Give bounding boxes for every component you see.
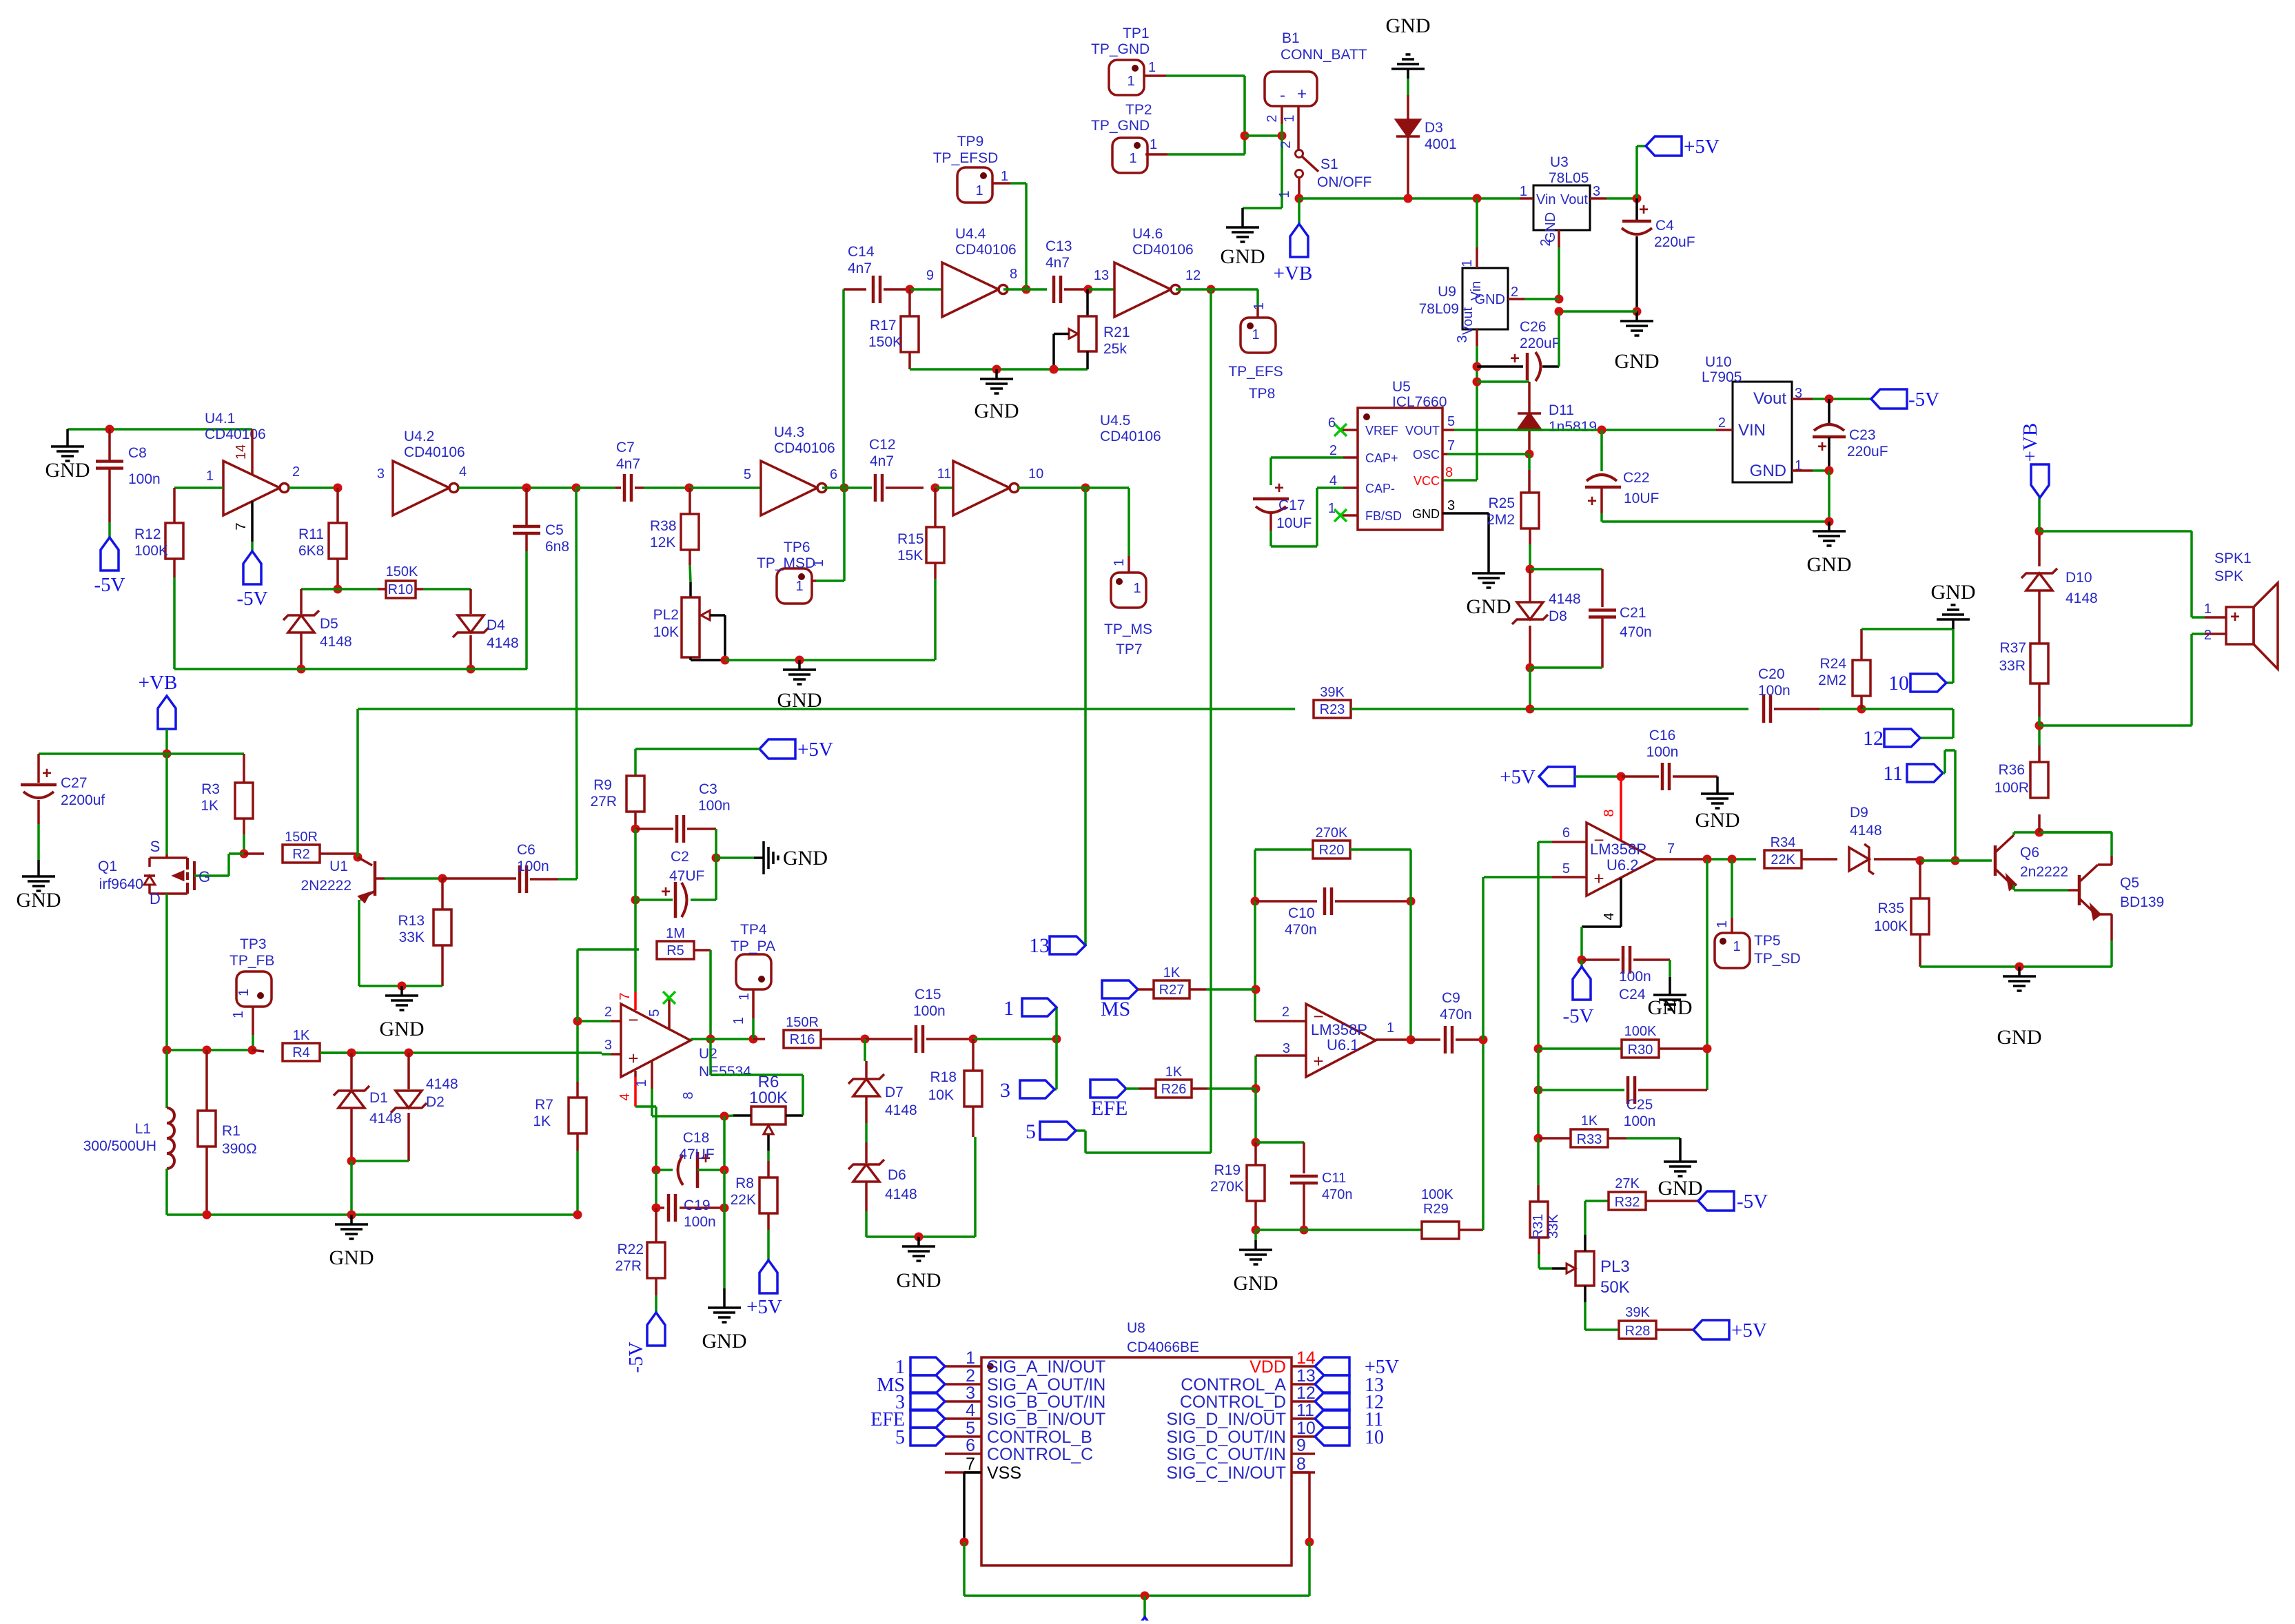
svg-text:R19: R19 [1214, 1162, 1241, 1178]
svg-text:VSS: VSS [987, 1463, 1021, 1483]
wire R17 bottom to GND/R21 [910, 368, 1054, 371]
wire +VB rail left [39, 752, 167, 755]
svg-text:TP4: TP4 [740, 922, 767, 938]
svg-text:220uF: 220uF [1520, 336, 1561, 351]
wire R37 row to SPK pin2 [2039, 724, 2192, 727]
svg-text:U4.6: U4.6 [1132, 226, 1163, 242]
svg-text:C7: C7 [616, 440, 635, 455]
svg-text:SIG_C_IN/OUT: SIG_C_IN/OUT [1166, 1463, 1286, 1483]
wire gnd rail bottom left [167, 1213, 351, 1216]
svg-text:2: 2 [1282, 1005, 1289, 1020]
wire R38 to PL2 [688, 550, 691, 565]
svg-text:Vout: Vout [1460, 307, 1476, 335]
svg-text:+: + [1510, 349, 1520, 368]
wire U9 Vin [1476, 198, 1478, 247]
svg-text:1: 1 [1715, 921, 1730, 928]
junction C11 bottom [1300, 1226, 1309, 1235]
svg-text:CONTROL_A: CONTROL_A [1181, 1375, 1286, 1395]
svg-text:3: 3 [377, 466, 385, 482]
svg-text:U4.5: U4.5 [1100, 413, 1130, 429]
svg-text:7: 7 [234, 522, 249, 530]
svg-text:+VB: +VB [2019, 423, 2041, 462]
svg-text:1: 1 [1387, 1020, 1394, 1036]
inverter U4.4 CD40106 [942, 263, 999, 317]
junction C4 bottom [1633, 307, 1642, 316]
ic U8 CD4066BE [981, 1357, 1292, 1565]
wire C14 to U4.4 [910, 288, 942, 291]
capacitor C11 470n [1290, 1175, 1318, 1178]
svg-text:GND: GND [1221, 245, 1265, 268]
ground GND (C27) [37, 860, 40, 867]
svg-text:22K: 22K [1771, 852, 1795, 867]
wire U1 collector to C6 [385, 877, 442, 880]
resistor R34 22K [1764, 850, 1802, 868]
junction R24 bottom [1857, 705, 1866, 714]
power -5V (below U4.1) [243, 551, 261, 584]
potentiometer R21 25k [1086, 289, 1089, 316]
svg-text:-5V: -5V [1737, 1191, 1768, 1213]
junction R11 bottom [334, 585, 343, 594]
resistor R35 100K [1919, 861, 1921, 898]
svg-text:4148: 4148 [885, 1102, 917, 1118]
svg-text:1: 1 [1129, 151, 1136, 166]
wire pin7 drop [634, 900, 637, 992]
junction C22 top [1598, 426, 1606, 435]
svg-text:4148: 4148 [1850, 823, 1882, 839]
svg-text:33K: 33K [399, 929, 425, 945]
ground GND (D6/D7) [917, 1237, 920, 1246]
resistor R25 2M2 [1528, 454, 1531, 470]
resistor R4 1K [252, 1050, 264, 1051]
svg-text:C25: C25 [1626, 1097, 1653, 1113]
capacitor C20 100n [1762, 695, 1766, 723]
junction C10 left [1251, 897, 1260, 906]
svg-text:U3: U3 [1550, 154, 1569, 170]
zener D7 4148 [864, 1039, 866, 1061]
resistor R33 1K [1539, 1137, 1571, 1140]
svg-text:4: 4 [966, 1401, 975, 1420]
capacitor C17 10UF [1271, 456, 1343, 459]
svg-text:PL3: PL3 [1600, 1257, 1630, 1276]
hier label 3 [1055, 1039, 1058, 1089]
resistor R30 100K [1538, 1047, 1622, 1050]
svg-text:+: + [1274, 479, 1284, 497]
wire C7 to U4.3 [689, 486, 761, 489]
svg-text:6: 6 [966, 1436, 975, 1455]
wire D11 top [1477, 380, 1529, 383]
power +5V (R28) [1693, 1320, 1729, 1339]
power -5V (U8) [1143, 1596, 1146, 1617]
svg-text:39K: 39K [1625, 1305, 1650, 1320]
svg-text:10: 10 [1296, 1419, 1316, 1438]
junction U10 gnd [1825, 466, 1834, 475]
svg-text:4: 4 [459, 464, 467, 480]
svg-text:470n: 470n [1322, 1187, 1353, 1202]
svg-text:78L05: 78L05 [1549, 170, 1589, 186]
wire C26 to gnd rail [1558, 313, 1560, 367]
svg-text:C13: C13 [1045, 238, 1072, 254]
svg-text:-: - [1280, 86, 1285, 105]
wire SPK pin2 [2190, 634, 2193, 726]
svg-text:5: 5 [1447, 414, 1455, 429]
junction C26 left [1473, 362, 1482, 371]
wire U4.5 out to TP7 [1018, 486, 1129, 489]
svg-text:27R: 27R [590, 794, 617, 810]
junction R19 top [1252, 1138, 1261, 1147]
svg-text:2200uf: 2200uf [61, 792, 105, 808]
svg-text:D5: D5 [320, 616, 338, 632]
junction D4 bottom [467, 665, 476, 674]
svg-text:R27: R27 [1159, 983, 1185, 998]
svg-text:5: 5 [1562, 861, 1570, 876]
svg-text:1: 1 [1001, 169, 1008, 184]
svg-text:TP9: TP9 [957, 134, 984, 150]
junction C2 left [631, 896, 640, 905]
zener D10 4148 [2021, 568, 2057, 578]
potentiometer PL3 50K [1552, 1267, 1567, 1270]
resistor R28 39K [1619, 1321, 1656, 1339]
svg-text:EFE: EFE [1091, 1097, 1128, 1120]
resistor R6 100K pot [751, 1107, 786, 1124]
svg-text:TP_MSD: TP_MSD [757, 555, 815, 571]
svg-text:CD40106: CD40106 [205, 426, 266, 442]
svg-text:+: + [2230, 608, 2240, 626]
svg-text:-5V: -5V [94, 574, 125, 596]
svg-text:GND: GND [1615, 350, 1660, 373]
junction C25 left [1534, 1086, 1543, 1095]
svg-text:1: 1 [1127, 74, 1134, 89]
junction R2/U1 base [354, 853, 363, 862]
junction TP nets [1241, 132, 1249, 141]
svg-text:22K: 22K [731, 1192, 756, 1208]
diode D11 1n5819 [1528, 408, 1531, 413]
ground GND (bottom left) [350, 1215, 353, 1224]
svg-text:R10: R10 [388, 582, 414, 597]
svg-text:C22: C22 [1623, 470, 1650, 486]
hier label 13 (U8) [1315, 1375, 1349, 1393]
svg-text:1: 1 [1277, 190, 1292, 198]
capacitor C16 100n [1621, 775, 1659, 778]
svg-text:Q1: Q1 [98, 859, 117, 874]
wire R4 to U2 pin3 [320, 1051, 602, 1054]
svg-text:GND: GND [1997, 1026, 2042, 1049]
svg-text:4148: 4148 [2065, 590, 2098, 606]
hier label MS [1102, 980, 1138, 998]
svg-text:15K: 15K [897, 548, 923, 564]
pin stubs U8 right [1292, 1365, 1315, 1368]
resistor R22 27R [655, 1208, 657, 1242]
junction GND tap [795, 656, 804, 665]
svg-text:R28: R28 [1625, 1324, 1651, 1339]
junction U3 gnd b [1555, 307, 1564, 316]
svg-text:C21: C21 [1620, 605, 1646, 621]
svg-text:390Ω: 390Ω [222, 1141, 257, 1157]
svg-text:33R: 33R [1999, 658, 2026, 674]
svg-text:D6: D6 [888, 1167, 906, 1183]
wire U9 Vout down [1476, 329, 1478, 346]
junction TP3 [248, 1046, 257, 1055]
wire U5 gnd [1487, 513, 1490, 564]
junction U4.6 output [1207, 285, 1216, 294]
svg-text:CONTROL_C: CONTROL_C [987, 1445, 1093, 1464]
speaker SPK1 SPK [2205, 616, 2226, 619]
svg-text:SIG_B_OUT/IN: SIG_B_OUT/IN [987, 1392, 1105, 1412]
resistor R15 15K [934, 488, 937, 527]
ground GND (below U10) [1828, 522, 1830, 531]
inverter U4.2 CD40106 [393, 461, 449, 515]
svg-text:GND: GND [702, 1330, 747, 1353]
junction pin1/C18 [720, 1112, 729, 1121]
svg-text:33K: 33K [1546, 1214, 1561, 1239]
hier label 1 [1055, 1007, 1058, 1039]
power -5V (U6.2) [1580, 960, 1583, 967]
junction Q1 drain row [163, 1046, 172, 1055]
resistor R38 12K [688, 488, 691, 514]
zener D5 4148 [300, 589, 303, 614]
zener D2 4148 [407, 1053, 410, 1089]
svg-text:12K: 12K [650, 535, 675, 551]
svg-text:TP_EFS: TP_EFS [1228, 364, 1283, 380]
resistor R19 270K [1254, 1142, 1257, 1165]
svg-text:U4.4: U4.4 [955, 226, 986, 242]
hier label 12 [1884, 729, 1920, 747]
inverter U4.1 CD40106 [223, 461, 280, 515]
svg-text:R3: R3 [201, 781, 220, 797]
svg-text:13: 13 [1296, 1366, 1316, 1386]
ground GND (below PL2) [798, 660, 801, 670]
svg-text:10K: 10K [653, 624, 679, 640]
svg-text:100R: 100R [1995, 780, 2029, 796]
capacitor C9 470n [1411, 1038, 1440, 1041]
svg-text:100n: 100n [128, 471, 161, 487]
svg-text:CD4066BE: CD4066BE [1127, 1339, 1199, 1355]
svg-text:4n7: 4n7 [1045, 255, 1070, 271]
power +VB (right) [2038, 497, 2041, 531]
svg-text:25k: 25k [1103, 341, 1127, 357]
svg-text:3: 3 [1593, 184, 1600, 199]
junction D1 top [347, 1049, 356, 1058]
svg-text:irf9640: irf9640 [99, 876, 143, 892]
wire VSS pin7 [964, 1471, 981, 1474]
ground GND (C24) [1669, 977, 1671, 985]
svg-text:14: 14 [234, 444, 249, 460]
ground GND (C19) [723, 1288, 726, 1298]
diode D3 4001 [1407, 79, 1409, 95]
pin 4 wire [1620, 878, 1622, 927]
svg-text:R5: R5 [666, 943, 684, 958]
ground GND (above D3) [1407, 69, 1409, 79]
svg-text:6K8: 6K8 [298, 543, 324, 559]
svg-text:1K: 1K [293, 1028, 310, 1043]
wire R29 right up to C9 node [1482, 1040, 1485, 1230]
wire B1 pin2 to GND [1281, 124, 1283, 208]
hier label MS (U8 pin2) [910, 1375, 945, 1393]
svg-text:5: 5 [895, 1427, 905, 1448]
svg-text:1: 1 [1733, 939, 1740, 954]
svg-text:2: 2 [1718, 415, 1726, 431]
junction Q5 gnd [2015, 963, 2024, 972]
svg-text:220uF: 220uF [1847, 444, 1888, 460]
svg-text:47UF: 47UF [679, 1147, 714, 1162]
svg-text:8: 8 [681, 1091, 696, 1099]
svg-text:7: 7 [1667, 841, 1675, 856]
resistor R3 1K [243, 754, 245, 783]
capacitor C27 2200uf [37, 754, 40, 783]
svg-text:U4.3: U4.3 [774, 424, 804, 440]
wire C20 to R24 [1819, 708, 1861, 710]
svg-text:VIN: VIN [1738, 421, 1766, 440]
wire R19 node to C11 [1256, 1141, 1304, 1144]
svg-text:1n5819: 1n5819 [1549, 419, 1597, 435]
resistor R29 100K [1422, 1222, 1459, 1239]
svg-text:GND: GND [45, 459, 90, 482]
testpoint TP7 TP_MS [1111, 573, 1146, 608]
testpoint TP2 TP_GND [1112, 138, 1147, 173]
svg-text:2: 2 [1538, 238, 1553, 246]
wire PL2 bottom [689, 657, 692, 660]
zener D8 4148 [1529, 569, 1531, 602]
wire +5V to C16 [1575, 775, 1621, 778]
svg-text:R4: R4 [292, 1045, 310, 1060]
svg-text:-5V: -5V [1562, 1005, 1593, 1027]
svg-text:7: 7 [966, 1455, 975, 1474]
hier label 11 (U8) [1315, 1410, 1349, 1428]
svg-text:R34: R34 [1771, 835, 1796, 850]
capacitor C25 100n [1538, 1089, 1624, 1091]
ground GND rotated (C3/C2) [716, 856, 754, 859]
junction rail gnd [347, 1211, 356, 1220]
wire pin8 drop [1292, 1471, 1309, 1474]
wire Q6 collector [2012, 832, 2015, 835]
svg-text:+: + [1587, 492, 1597, 511]
svg-text:8: 8 [1010, 267, 1017, 282]
svg-text:C19: C19 [684, 1198, 711, 1213]
hier label 12 (U8) [1315, 1392, 1349, 1410]
power +VB (left) [158, 696, 176, 729]
svg-text:Q5: Q5 [2120, 875, 2139, 891]
resistor R16 150R [753, 1038, 765, 1040]
svg-text:2: 2 [1329, 443, 1337, 458]
wire gnd drop [1828, 471, 1830, 522]
junction rail R1 [203, 1211, 212, 1220]
svg-text:CONTROL_D: CONTROL_D [1180, 1392, 1286, 1412]
svg-text:R35: R35 [1877, 901, 1904, 916]
svg-text:100n: 100n [1646, 744, 1679, 760]
svg-text:C2: C2 [671, 849, 689, 865]
junction R9 bottom [631, 825, 640, 834]
hier label 10 (U8) [1315, 1428, 1349, 1446]
wire gate node [229, 852, 244, 855]
svg-text:47UF: 47UF [669, 868, 704, 884]
junction R1 top [203, 1046, 212, 1055]
svg-text:9: 9 [1296, 1436, 1306, 1455]
svg-text:C26: C26 [1520, 319, 1547, 335]
hier label EFE [1090, 1080, 1126, 1098]
ic U5 ICL7660 [1358, 408, 1442, 530]
capacitor C5 6n8 [525, 488, 528, 526]
svg-text:R29: R29 [1423, 1202, 1449, 1217]
junction U4.2 input [334, 484, 343, 493]
battery connector B1 CONN_BATT [1265, 72, 1317, 106]
svg-text:GND: GND [380, 1018, 425, 1040]
svg-text:GND: GND [1750, 462, 1786, 480]
svg-text:100K: 100K [1874, 918, 1908, 934]
junction C18 right [720, 1166, 729, 1175]
svg-text:4n7: 4n7 [848, 260, 872, 276]
hier label 5 (U8 pin5) [910, 1428, 945, 1446]
wire long rail corner down to U1 [356, 709, 359, 857]
junction U4.4 output / TP9 [1022, 285, 1031, 294]
wire R26 node down to R19 [1254, 1089, 1257, 1142]
wire C4 gnd link [1559, 310, 1637, 313]
junction emitter gnd [398, 982, 407, 991]
svg-text:SIG_A_OUT/IN: SIG_A_OUT/IN [987, 1375, 1105, 1395]
junction C15 right [969, 1035, 978, 1044]
testpoint TP4 TP_PA [736, 954, 771, 989]
svg-text:TP_FB: TP_FB [229, 953, 274, 969]
svg-text:2: 2 [966, 1366, 975, 1386]
junction U4.5 input [931, 484, 940, 493]
junction C5 top [522, 484, 531, 493]
svg-text:12: 12 [1185, 268, 1201, 283]
junction C24/-5V [1578, 956, 1587, 965]
regulator U9 78L09 [1462, 268, 1508, 329]
junction C15 left [861, 1035, 870, 1044]
junction flags 1/3 [1052, 1035, 1061, 1044]
wire bottom row to R29 [1256, 1229, 1422, 1231]
svg-text:U1: U1 [329, 859, 348, 874]
ground GND (battery) [1241, 218, 1244, 227]
svg-text:+5V: +5V [1684, 136, 1720, 158]
wire TP9 drop [1025, 183, 1028, 289]
junction C22/C23 gnd [1825, 517, 1834, 526]
svg-text:GND: GND [1658, 1177, 1703, 1200]
svg-text:U2: U2 [699, 1046, 717, 1062]
svg-text:U10: U10 [1705, 354, 1732, 370]
svg-text:S1: S1 [1320, 156, 1338, 172]
svg-text:GND: GND [1695, 809, 1740, 832]
resistor R20 270K [1313, 841, 1350, 859]
svg-text:+VB: +VB [1274, 263, 1313, 285]
svg-text:C20: C20 [1758, 666, 1785, 682]
svg-text:GND: GND [783, 847, 828, 870]
resistor R5 1M [657, 941, 694, 959]
svg-text:GND: GND [1543, 212, 1558, 243]
svg-text:D10: D10 [2065, 570, 2092, 586]
svg-text:U4.1: U4.1 [205, 411, 235, 426]
svg-text:1K: 1K [1163, 965, 1181, 980]
svg-text:1: 1 [1328, 501, 1336, 516]
svg-text:1: 1 [966, 1348, 975, 1368]
power +VB (below S1) [1298, 198, 1300, 224]
junction pin8/C16 [1617, 772, 1626, 781]
resistor R32 27K [1585, 1200, 1609, 1202]
svg-text:R9: R9 [593, 777, 612, 793]
testpoint TP8 TP_EFS [1241, 318, 1276, 353]
wire U10 gnd pin [1792, 469, 1813, 472]
svg-text:S: S [150, 838, 161, 855]
capacitor C8 [108, 429, 111, 462]
svg-text:3: 3 [966, 1384, 975, 1403]
ground GND (Q5) [2018, 967, 2021, 976]
wire PL2 wiper [710, 614, 725, 617]
junction D8 top [1526, 565, 1535, 574]
resistor R37 33R [2038, 717, 2041, 726]
svg-text:GND: GND [329, 1246, 374, 1269]
resistor R24 2M2 [1860, 696, 1863, 709]
svg-text:D8: D8 [1549, 608, 1567, 624]
svg-text:R36: R36 [1998, 762, 2025, 778]
